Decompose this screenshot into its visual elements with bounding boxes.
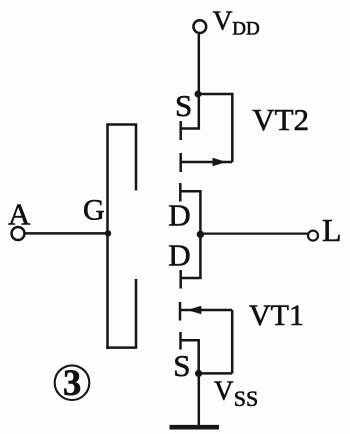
svg-text:VT2: VT2 — [252, 102, 309, 137]
svg-text:A: A — [8, 196, 31, 231]
svg-text:V: V — [214, 376, 234, 406]
svg-text:S: S — [175, 88, 192, 123]
svg-text:SS: SS — [234, 386, 258, 411]
svg-text:L: L — [322, 212, 342, 248]
svg-text:G: G — [83, 194, 105, 227]
svg-text:D: D — [168, 238, 190, 273]
svg-text:S: S — [173, 348, 190, 383]
svg-text:3: 3 — [63, 362, 81, 403]
svg-text:DD: DD — [232, 19, 259, 40]
svg-text:VT1: VT1 — [249, 299, 304, 332]
svg-text:V: V — [213, 4, 233, 35]
svg-text:D: D — [168, 198, 190, 233]
